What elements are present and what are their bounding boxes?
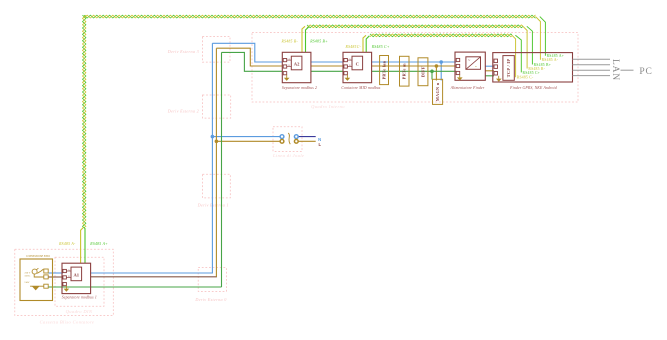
svg-text:RS485 C-: RS485 C- (517, 76, 534, 80)
svg-text:Linea di Joule: Linea di Joule (272, 153, 304, 158)
svg-text:C: C (356, 62, 359, 67)
svg-text:Separatore modbus 1: Separatore modbus 1 (62, 296, 97, 300)
svg-text:=: = (475, 65, 477, 69)
svg-text:L: L (319, 142, 322, 147)
svg-text:RS485C-: RS485C- (345, 45, 362, 49)
svg-text:PC: PC (639, 67, 652, 77)
svg-text:PRTe m: PRTe m (402, 63, 407, 79)
svg-text:Finder GPRS, NKE Android: Finder GPRS, NKE Android (509, 86, 557, 91)
svg-text:Contatore MID modbus: Contatore MID modbus (341, 86, 381, 90)
svg-text:RS485 C+: RS485 C+ (371, 45, 390, 49)
svg-text:Quadro Interno: Quadro Interno (311, 104, 345, 109)
svg-text:Deriv Esterna 3: Deriv Esterna 3 (167, 49, 199, 54)
svg-text:A1: A1 (73, 272, 79, 277)
svg-text:Cassetta Bliso Contatore: Cassetta Bliso Contatore (40, 320, 95, 325)
svg-text:DIFF: DIFF (420, 66, 425, 77)
svg-text:RS485 A-: RS485 A- (542, 58, 559, 62)
svg-text:~: ~ (468, 58, 471, 63)
svg-text:Quadro DIN: Quadro DIN (66, 309, 93, 314)
svg-text:Deriv Esterna 2: Deriv Esterna 2 (167, 109, 199, 114)
svg-text:50 Hz: 50 Hz (25, 275, 31, 278)
svg-text:MAGN n: MAGN n (435, 82, 440, 101)
svg-text:RS485 B-: RS485 B- (281, 40, 299, 44)
svg-text:Deriv Esterna 0: Deriv Esterna 0 (194, 297, 227, 302)
svg-text:RS485 B+: RS485 B+ (309, 40, 328, 44)
svg-text:Alimentatore Finder: Alimentatore Finder (450, 86, 485, 90)
svg-text:RS485 A-: RS485 A- (58, 242, 76, 246)
svg-text:CONNESSIONE ENEL: CONNESSIONE ENEL (26, 255, 51, 258)
svg-text:LAN: LAN (610, 59, 620, 81)
svg-text:PRTe lan: PRTe lan (382, 60, 387, 79)
svg-text:RS485 A+: RS485 A+ (89, 242, 108, 246)
svg-text:Separatore modbus 2: Separatore modbus 2 (282, 86, 317, 90)
svg-text:RS485 C+: RS485 C+ (523, 71, 541, 75)
svg-text:3 kW: 3 kW (24, 281, 30, 284)
svg-text:A2: A2 (294, 62, 300, 67)
svg-text:TCP / IP: TCP / IP (506, 59, 511, 78)
